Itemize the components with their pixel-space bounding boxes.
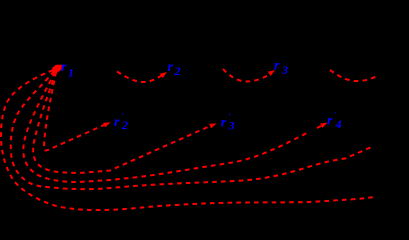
svg-text:1: 1 <box>68 66 74 80</box>
svg-text:3: 3 <box>228 119 235 133</box>
svg-text:r: r <box>168 60 174 75</box>
svg-text:r: r <box>61 60 67 75</box>
svg-text:4: 4 <box>335 117 342 131</box>
svg-text:2: 2 <box>121 118 128 132</box>
svg-text:2: 2 <box>174 64 181 78</box>
svg-text:3: 3 <box>281 63 288 77</box>
svg-text:r: r <box>327 114 333 129</box>
svg-text:r: r <box>114 115 120 130</box>
svg-text:r: r <box>221 116 227 131</box>
svg-text:r: r <box>274 59 280 74</box>
